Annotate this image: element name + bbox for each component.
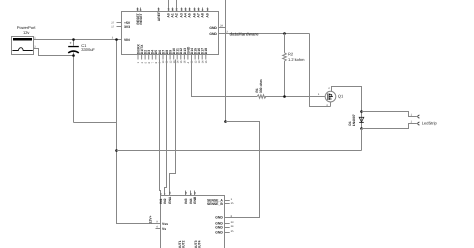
wire left vertical rail from VIN down to L298 Vss [117,40,156,224]
svg-text:GND: GND [209,26,217,30]
svg-text:ENB: ENB [193,196,197,204]
node junction: led strip pin1 [360,110,363,113]
resistor R2 1.2 kohm [283,34,305,97]
node junction: R2 top on data rail [283,32,286,35]
svg-text:OUT4: OUT4 [197,240,201,248]
node junction: cap minus with powerport pin2 wire [72,54,75,57]
wire mosfet source drop from data rail [310,34,331,107]
svg-text:ENA: ENA [168,196,172,204]
wire from PowerPort pin2 to capacitor minus [34,49,74,56]
svg-text:IN2: IN2 [163,198,167,203]
U2 bottom labels OUT1-OUT4 [178,240,201,248]
U1 top pins RESET RESET AREF A0-A7 [136,7,210,24]
svg-text:SENSE_B: SENSE_B [207,202,223,206]
wire gate line right of R1 to mosfet gate [265,96,325,98]
svg-text:dataHardware: dataHardware [230,31,260,36]
node junction: VIN on +12 rail [115,38,118,41]
wire led strip return drop [361,129,363,151]
U2 left pins Vss Vs [156,221,169,231]
svg-text:Vss: Vss [162,222,168,226]
wire mosfet source stub [330,102,332,107]
wire cap minus return to left rail [74,122,117,124]
svg-text:1.2 kohm: 1.2 kohm [288,57,305,62]
connector LedStrip [362,112,438,129]
node junction: cap plus on +12 rail [72,38,75,41]
wire mosfet drain up over and down to led strip pin1 [332,87,362,112]
svg-text:IN3: IN3 [184,198,188,203]
U1 bottom pins D0-D13 row [136,43,208,63]
capacitor C1 3300uF [68,40,95,123]
node junction: ground return tap on left rail [115,149,118,152]
svg-text:A8: A8 [201,13,205,17]
svg-text:AREF: AREF [157,12,161,21]
wire GND bus from U1 right pin up to top edge and down [225,0,227,122]
wire A0 to top edge [168,0,170,8]
wire ground return from left rail to led strip [117,150,362,152]
svg-text:12v: 12v [23,30,29,35]
U2 top pins IN1 IN2 ENA IN3 IN4 ENB [159,191,197,204]
svg-text:GND: GND [209,32,217,36]
node junction: GND bus branch to L298 [224,120,227,123]
svg-text:OUT2: OUT2 [181,240,185,248]
U2 right pins SENSE_A SENSE_B GND GND GND GND [207,198,234,235]
svg-text:+: + [70,41,72,45]
svg-text:A9: A9 [206,13,210,17]
svg-text:RESET: RESET [139,12,143,24]
wire A2 to top edge [176,0,178,8]
svg-text:Q1: Q1 [338,93,344,98]
wire U1 D10 to L298 ENA [170,60,176,196]
node junction: R2 bottom on gate line [283,95,286,98]
svg-text:R2: R2 [288,52,294,57]
U1 left pins +5V 3V3 VIN [111,21,131,42]
diode D1 1N4007 [348,112,364,129]
svg-text:GND: GND [215,226,223,230]
svg-text:GND: GND [215,216,223,220]
svg-text:Vs: Vs [162,227,166,231]
svg-text:D18: D18 [204,48,208,54]
wire +12 rail from PowerPort pin1 to Arduino VIN [34,39,122,41]
wire U1 D6 to L298 IN1 [160,60,161,196]
svg-text:3300uF: 3300uF [81,47,95,52]
svg-text:1N4007: 1N4007 [352,114,356,126]
svg-text:A2: A2 [175,13,179,17]
IC U2 L298 body [161,196,225,248]
wire U1 D8 to L298 IN2 [165,60,167,196]
svg-text:GND: GND [215,231,223,235]
U1 right pins GND GND [209,25,228,36]
wire data rail from U1 right pin to mosfet source drop [219,33,310,35]
svg-text:A5: A5 [188,13,192,17]
wire gate line from U1 D-pin down and right [192,60,258,97]
svg-text:12V+: 12V+ [149,215,153,223]
node junction: led strip pin2 [360,127,363,130]
svg-text:VIN: VIN [124,38,130,42]
svg-text:3V3: 3V3 [124,25,130,29]
svg-text:LedStrip: LedStrip [422,120,438,125]
power port J1 12v [12,25,37,54]
op-amp U1 arduino body [122,12,219,55]
svg-text:330 ohm: 330 ohm [259,79,263,93]
resistor R1 330 ohm [255,79,266,98]
transistor Q1 mosfet [318,87,344,107]
wire GND bus over to L298 GND pin [226,122,260,218]
